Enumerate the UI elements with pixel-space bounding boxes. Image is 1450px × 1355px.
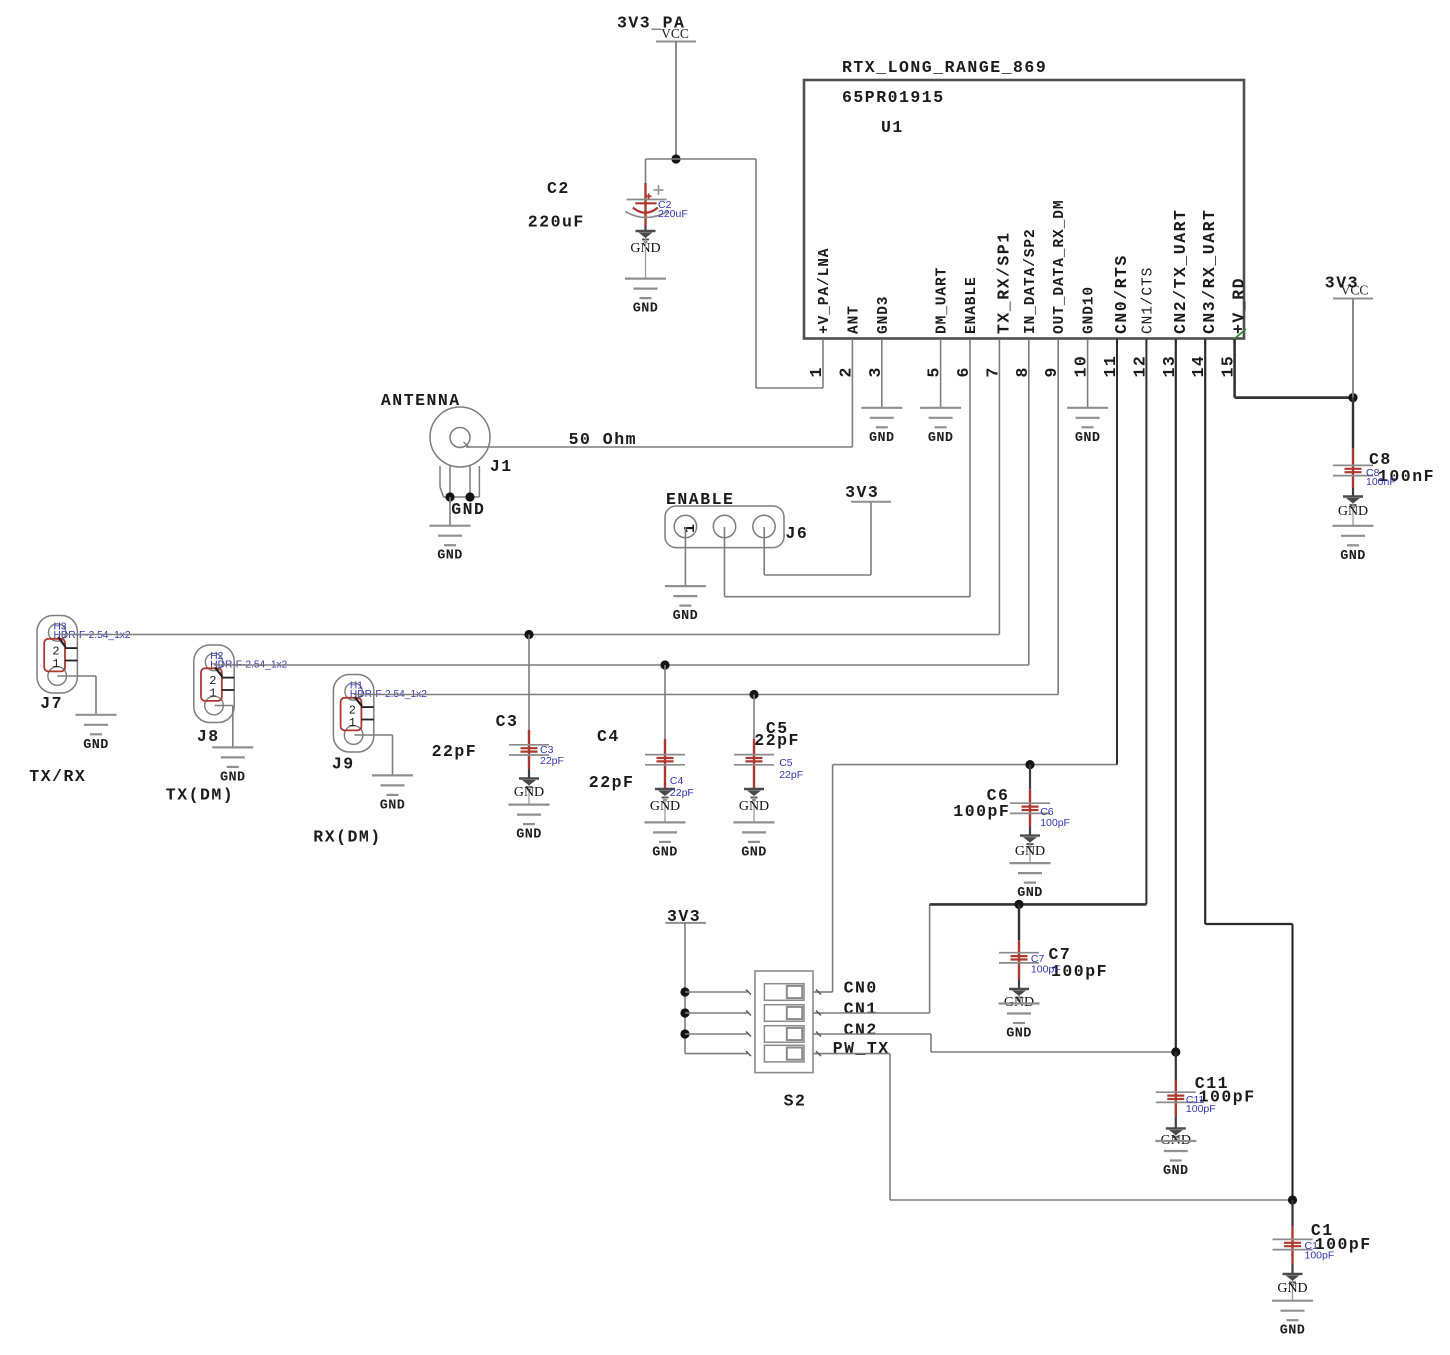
svg-text:100pF: 100pF — [1040, 817, 1070, 829]
svg-text:C3: C3 — [496, 712, 519, 731]
svg-text:GND: GND — [516, 828, 542, 843]
svg-text:J9: J9 — [332, 755, 355, 774]
svg-text:IN_DATA/SP2: IN_DATA/SP2 — [1023, 228, 1039, 334]
svg-text:GND: GND — [451, 500, 485, 519]
svg-text:22pF: 22pF — [779, 769, 803, 781]
svg-text:J1: J1 — [490, 457, 513, 476]
svg-text:CN1/CTS: CN1/CTS — [1140, 267, 1156, 334]
svg-text:GND: GND — [1006, 1027, 1032, 1042]
svg-text:22pF: 22pF — [670, 787, 694, 799]
svg-text:GND: GND — [633, 302, 659, 317]
svg-text:GND: GND — [741, 845, 767, 860]
svg-text:GND: GND — [652, 845, 678, 860]
svg-text:100pF: 100pF — [1031, 964, 1061, 976]
svg-text:J6: J6 — [786, 524, 809, 543]
svg-text:GND: GND — [380, 798, 406, 813]
svg-text:GND10: GND10 — [1082, 286, 1098, 334]
svg-text:+V_RD: +V_RD — [1230, 277, 1249, 334]
svg-text:ENABLE: ENABLE — [964, 276, 980, 334]
svg-text:J7: J7 — [40, 694, 63, 713]
svg-text:RTX_LONG_RANGE_869: RTX_LONG_RANGE_869 — [842, 58, 1047, 77]
svg-text:GND: GND — [83, 738, 109, 753]
svg-text:CN0: CN0 — [844, 979, 878, 998]
svg-text:3V3: 3V3 — [845, 483, 879, 502]
svg-text:GND: GND — [1280, 1324, 1306, 1339]
svg-text:100pF: 100pF — [1186, 1103, 1216, 1115]
svg-text:220uF: 220uF — [658, 208, 688, 220]
svg-text:GND: GND — [514, 785, 544, 800]
svg-text:GND: GND — [928, 431, 954, 446]
svg-text:DM_UART: DM_UART — [935, 267, 951, 334]
svg-text:100nF: 100nF — [1366, 476, 1396, 488]
svg-text:C4: C4 — [597, 727, 620, 746]
svg-text:ANT: ANT — [846, 305, 862, 334]
svg-text:OUT_DATA_RX_DM: OUT_DATA_RX_DM — [1052, 200, 1068, 334]
svg-text:50 Ohm: 50 Ohm — [569, 430, 637, 449]
svg-text:GND: GND — [1163, 1164, 1189, 1179]
svg-text:ANTENNA: ANTENNA — [381, 391, 461, 410]
svg-text:CN2/TX_UART: CN2/TX_UART — [1171, 209, 1190, 334]
svg-text:GND: GND — [869, 431, 895, 446]
svg-text:GND3: GND3 — [876, 296, 892, 334]
svg-text:+V_PA/LNA: +V_PA/LNA — [817, 248, 833, 334]
svg-text:22pF: 22pF — [589, 773, 635, 792]
svg-text:HDR-F-2.54_1x2: HDR-F-2.54_1x2 — [54, 630, 131, 641]
svg-text:C4: C4 — [670, 775, 684, 787]
svg-text:CN0/RTS: CN0/RTS — [1112, 254, 1131, 334]
svg-text:220uF: 220uF — [528, 213, 585, 232]
svg-text:22pF: 22pF — [754, 731, 800, 750]
svg-text:J8: J8 — [197, 727, 220, 746]
svg-text:GND: GND — [673, 609, 699, 624]
svg-text:VCC: VCC — [661, 26, 689, 41]
svg-text:S2: S2 — [784, 1092, 807, 1111]
svg-text:1: 1 — [682, 524, 699, 533]
svg-text:1: 1 — [349, 716, 356, 730]
svg-text:TX_RX/SP1: TX_RX/SP1 — [994, 231, 1013, 334]
svg-text:U1: U1 — [881, 118, 904, 137]
svg-text:GND: GND — [1277, 1281, 1307, 1296]
svg-text:CN3/RX_UART: CN3/RX_UART — [1200, 209, 1219, 334]
svg-text:GND: GND — [1075, 431, 1101, 446]
svg-text:GND: GND — [1340, 549, 1366, 564]
svg-text:GND: GND — [739, 799, 769, 814]
svg-text:CN2: CN2 — [844, 1021, 878, 1040]
svg-text:22pF: 22pF — [540, 755, 564, 767]
svg-text:GND: GND — [1338, 504, 1368, 519]
svg-text:GND: GND — [1017, 886, 1043, 901]
svg-text:VCC: VCC — [1341, 283, 1369, 298]
svg-text:RX(DM): RX(DM) — [313, 828, 381, 847]
svg-text:65PR01915: 65PR01915 — [842, 88, 945, 107]
svg-text:CN1: CN1 — [844, 1000, 878, 1019]
svg-text:C2: C2 — [547, 179, 570, 198]
svg-text:1: 1 — [209, 686, 216, 700]
svg-text:TX(DM): TX(DM) — [166, 786, 234, 805]
svg-text:GND: GND — [1015, 844, 1045, 859]
svg-text:GND: GND — [650, 799, 680, 814]
svg-text:100pF: 100pF — [953, 802, 1010, 821]
svg-text:1: 1 — [52, 657, 59, 671]
svg-text:GND: GND — [437, 549, 463, 564]
svg-text:TX/RX: TX/RX — [29, 767, 86, 786]
svg-text:100pF: 100pF — [1305, 1250, 1335, 1262]
svg-text:GND: GND — [220, 770, 246, 785]
svg-text:22pF: 22pF — [432, 742, 478, 761]
svg-text:PW_TX: PW_TX — [833, 1039, 890, 1058]
svg-text:C5: C5 — [779, 757, 793, 769]
